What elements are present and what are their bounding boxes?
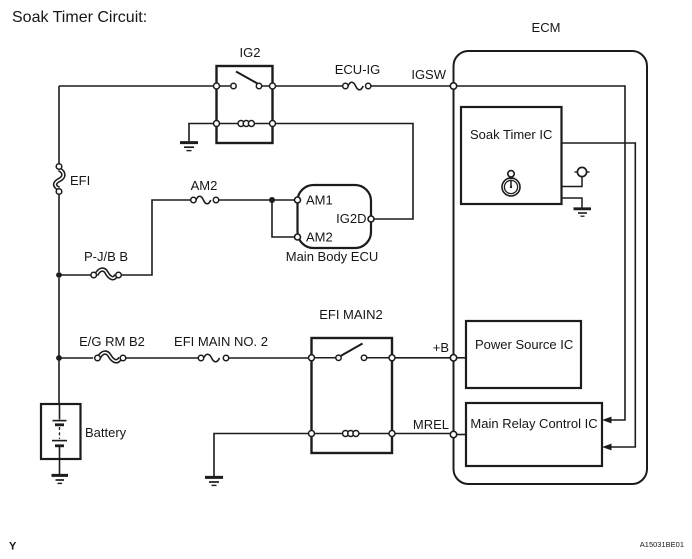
relay EFI MAIN2 switch contacts	[309, 344, 396, 361]
stopwatch icon	[502, 171, 520, 196]
svg-text:ECM: ECM	[532, 20, 561, 35]
wire: MREL into Main Relay Control IC	[457, 434, 466, 436]
ECM enclosure box	[454, 51, 648, 484]
battery internals	[52, 404, 67, 459]
wire: left rail top segment (node B+ rail)	[59, 86, 214, 404]
wire: IG2 switch to ECU-IG fuse	[276, 85, 343, 87]
svg-text:MREL: MREL	[413, 417, 449, 432]
ground (below EFI MAIN2)	[205, 477, 223, 485]
ground (Soak Timer IC)	[574, 209, 592, 216]
wire: Soak Timer IC to terminal symbol	[562, 177, 583, 187]
terminal symbol (circle with bar)	[575, 167, 590, 176]
fuse EFI (fusible link, vertical)	[55, 164, 63, 195]
fuse EFI MAIN NO. 2	[198, 354, 228, 362]
wire: junction down to AM2 pin	[272, 200, 295, 237]
svg-text:Battery: Battery	[85, 425, 127, 440]
wire: IGSW to down-right run	[457, 86, 625, 420]
arrow into Main Relay Control IC (from IGSW)	[602, 417, 612, 424]
svg-text:IGSW: IGSW	[411, 67, 446, 82]
terminal MREL on ECM	[450, 431, 456, 437]
svg-text:E/G RM B2: E/G RM B2	[79, 334, 145, 349]
fuse E/G RM B2 (fusible link)	[95, 353, 126, 362]
wire: IG2 coil to ground	[189, 124, 214, 142]
wire: Soak Timer IC to ground	[562, 198, 583, 208]
wire: EFI MAIN2 coil to ground	[214, 434, 309, 477]
node junction E/G RM branch	[56, 355, 62, 361]
Battery box	[41, 404, 81, 459]
svg-text:+B: +B	[433, 340, 449, 355]
terminal AM1	[295, 197, 301, 203]
svg-text:IG2D: IG2D	[336, 211, 366, 226]
relay EFI MAIN2 coil	[309, 431, 396, 437]
ground (below IG2 coil)	[180, 143, 198, 151]
wire: +B into Power Source IC	[457, 357, 466, 359]
Main Relay Control IC box	[466, 403, 602, 466]
terminal IG2D	[368, 216, 374, 222]
node junction AM1/AM2	[269, 197, 275, 203]
wire: E/G RM B2 to EFI MAIN NO.2 fuse	[126, 357, 199, 359]
ground (below battery)	[52, 475, 69, 483]
fuse AM2	[191, 196, 219, 204]
wire: EFI MAIN2 switch to +B	[395, 357, 450, 359]
svg-text:Y: Y	[9, 541, 17, 553]
Power Source IC box	[466, 321, 581, 388]
Soak Timer IC box	[461, 107, 562, 204]
relay IG2 switch contacts	[214, 72, 276, 90]
svg-text:AM1: AM1	[306, 193, 333, 208]
fuse P-J/B B (fusible link)	[91, 270, 121, 279]
fuse ECU-IG	[343, 82, 371, 90]
wire: P-J/B branch from rail	[56, 272, 62, 278]
relay IG2 coil	[214, 121, 276, 127]
svg-text:EFI MAIN2: EFI MAIN2	[319, 307, 383, 322]
svg-text:AM2: AM2	[306, 230, 333, 245]
svg-text:Main Relay Control IC: Main Relay Control IC	[470, 416, 597, 431]
wire: ECU-IG fuse to IGSW terminal	[371, 85, 450, 87]
wire: IG2 coil to IG2D (via vertical)	[276, 124, 414, 220]
svg-text:ECU-IG: ECU-IG	[335, 62, 381, 77]
wire: EFI MAIN2 coil to MREL	[395, 433, 450, 435]
relay EFI MAIN2 box	[312, 338, 393, 453]
arrow into Main Relay Control IC (from Soak Timer IC)	[602, 444, 612, 451]
wire: P-J/B B fuse up to AM2 fuse	[121, 200, 191, 275]
wire: rail to E/G RM B2 fuse	[59, 357, 93, 359]
svg-text:Soak Timer IC: Soak Timer IC	[470, 127, 552, 142]
svg-text:EFI: EFI	[70, 173, 90, 188]
svg-text:Soak Timer Circuit:: Soak Timer Circuit:	[12, 9, 147, 26]
svg-text:IG2: IG2	[240, 45, 261, 60]
terminal AM2	[295, 234, 301, 240]
svg-text:Main Body ECU: Main Body ECU	[286, 249, 378, 264]
svg-text:Power Source IC: Power Source IC	[475, 337, 573, 352]
svg-text:EFI MAIN NO. 2: EFI MAIN NO. 2	[174, 334, 268, 349]
wire: AM2 fuse to junction and AM1	[219, 199, 295, 201]
wire: battery to ground	[59, 459, 61, 474]
svg-text:AM2: AM2	[191, 178, 218, 193]
svg-text:P-J/B B: P-J/B B	[84, 249, 128, 264]
svg-text:A15031BE01: A15031BE01	[640, 540, 684, 549]
terminal +B on ECM	[450, 355, 456, 361]
Main Body ECU box	[298, 185, 372, 248]
terminal IGSW on ECM	[450, 83, 456, 89]
relay IG2 box	[217, 66, 273, 143]
wire: fuse to EFI MAIN2 relay	[229, 357, 309, 359]
wire: Soak Timer IC output down-right run	[562, 143, 636, 447]
